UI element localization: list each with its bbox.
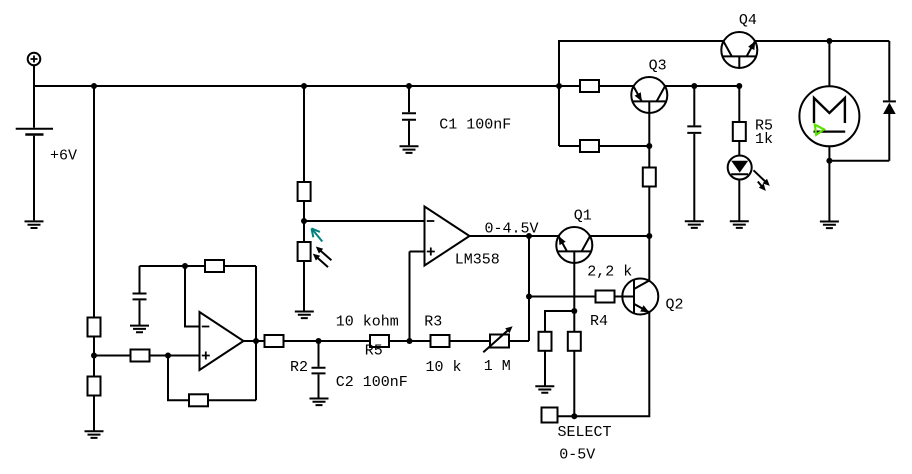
wire: U2 output chain xyxy=(244,340,530,342)
resistor (divider bottom) xyxy=(88,377,101,396)
wire: C2 to ground xyxy=(318,374,320,398)
wire: motor top lead xyxy=(828,41,830,86)
ground (C1) xyxy=(400,146,419,153)
capacitor (U2 feedback) xyxy=(133,294,147,300)
ground (battery) xyxy=(25,221,44,228)
transistor Q2 xyxy=(622,279,658,315)
resistor R5 10 kohm xyxy=(370,335,389,347)
wire: left resistor to ground xyxy=(544,351,546,386)
svg-text:1 M: 1 M xyxy=(484,358,511,375)
wire: Q1 base node to left resistor xyxy=(545,311,574,332)
wire: Q3 collector to Q4 base node xyxy=(665,85,739,87)
wire: battery minus to ground xyxy=(33,136,35,221)
wire: feedback vertical at x256 xyxy=(255,266,257,400)
resistor (Q3 base bias) xyxy=(580,140,599,152)
resistor R5 1k xyxy=(733,122,746,141)
junction node xyxy=(91,353,97,359)
ground (U2 feedback cap) xyxy=(130,326,149,333)
ground (bypass cap) xyxy=(685,221,704,228)
resistor (Q1 base to select) xyxy=(568,332,581,351)
wire: C1 top lead xyxy=(408,86,410,112)
junction node xyxy=(556,83,562,89)
junction node xyxy=(646,233,652,239)
LED xyxy=(728,156,770,191)
svg-text:1k: 1k xyxy=(755,131,773,148)
junction node xyxy=(253,338,259,344)
wire: upper sub-rail right of Q4 xyxy=(755,40,889,42)
wire: U2 minus input branch xyxy=(185,266,200,327)
wire: bypass cap top lead xyxy=(693,86,695,125)
wire: C1 bottom lead xyxy=(408,121,410,146)
junction node xyxy=(826,38,832,44)
wire: U1 inverting input line xyxy=(304,220,425,222)
junction node xyxy=(301,218,307,224)
wire: Q1 collector to x649 node xyxy=(591,235,650,237)
connector SELECT xyxy=(542,408,558,423)
svg-text:Q4: Q4 xyxy=(739,12,757,29)
junction node xyxy=(406,83,412,89)
resistor R3 xyxy=(431,335,450,347)
transistor Q3 xyxy=(631,77,667,114)
capacitor C1 xyxy=(402,113,416,120)
junction node xyxy=(526,294,532,300)
transistor Q1 xyxy=(556,227,592,264)
resistor (U2 top feedback) xyxy=(205,260,224,272)
junction node xyxy=(407,338,413,344)
terminal + xyxy=(28,53,41,66)
resistor (U2 bottom feedback) xyxy=(189,394,208,406)
wire: top feedback line xyxy=(140,265,257,267)
ground (left divider) xyxy=(85,431,104,438)
wire: LED to ground xyxy=(738,179,740,221)
wire: x559 vertical and upper sub-rail left xyxy=(559,41,723,146)
resistor (Q1 base to gnd) xyxy=(539,332,552,351)
svg-text:Q2: Q2 xyxy=(666,297,684,314)
junction node xyxy=(691,83,697,89)
op-amp U1 LM358 xyxy=(425,207,470,266)
junction node xyxy=(182,263,188,269)
wire: U1 plus input vertical xyxy=(409,252,411,342)
ground (LED) xyxy=(730,221,749,228)
resistor R4 2,2k xyxy=(596,291,615,303)
wire: motor bottom to ground xyxy=(828,146,830,221)
wire: bypass cap to ground xyxy=(693,134,695,221)
resistor (Q3 base series) xyxy=(643,168,656,187)
wire: Q3 base bias line xyxy=(559,145,649,147)
svg-text:LM358: LM358 xyxy=(455,252,500,269)
junction node xyxy=(736,83,742,89)
junction node xyxy=(571,308,577,314)
svg-text:10 kohm: 10 kohm xyxy=(336,313,399,330)
resistor R2 xyxy=(265,335,284,347)
junction node xyxy=(571,413,577,419)
wire: diode cathode up xyxy=(888,41,890,100)
junction node xyxy=(526,233,532,239)
wire: R4 line to Q2 base xyxy=(529,296,634,298)
junction node xyxy=(91,83,97,89)
wire: Q1 base vertical xyxy=(573,251,575,416)
svg-text:C1 100nF: C1 100nF xyxy=(439,117,511,134)
wire: +6V top rail xyxy=(34,85,559,87)
battery +6V xyxy=(16,129,53,135)
resistor (above LDR) xyxy=(298,182,311,201)
resistor (divider top) xyxy=(88,318,101,337)
ground (Q1 base divider) xyxy=(535,386,554,393)
wire: output node vertical xyxy=(528,236,530,341)
wire: C2 top lead xyxy=(318,341,320,367)
svg-text:SELECT: SELECT xyxy=(558,424,612,441)
wire: bottom feedback loop xyxy=(168,356,256,401)
svg-text:0-5V: 0-5V xyxy=(559,447,595,464)
junction node xyxy=(165,353,171,359)
resistor (U2 plus input) xyxy=(131,350,150,362)
svg-text:R3: R3 xyxy=(424,313,442,330)
svg-text:C2 100nF: C2 100nF xyxy=(336,374,408,391)
junction node xyxy=(826,158,832,164)
wire: terminal to battery top xyxy=(33,66,35,128)
capacitor (bypass at Q3 collector) xyxy=(687,126,701,132)
potentiometer 1M xyxy=(483,326,512,352)
wire: LDR branch vertical xyxy=(303,86,305,312)
capacitor C2 xyxy=(312,368,326,374)
svg-text:2,2 k: 2,2 k xyxy=(587,264,632,281)
wire: Q4 base node down to R5 xyxy=(738,86,740,156)
wire: x649 vertical Q3 base to Q2 collector xyxy=(648,101,650,280)
wire: feedback cap top lead xyxy=(139,266,141,293)
resistor (Q3 emitter bias) xyxy=(580,80,599,92)
svg-text:R2: R2 xyxy=(290,359,308,376)
wire: left divider vertical xyxy=(93,86,95,431)
svg-text:Q1: Q1 xyxy=(574,208,592,225)
cursor arrow (teal) xyxy=(312,228,323,241)
svg-text:+6V: +6V xyxy=(50,148,77,165)
wire: U2 plus input line xyxy=(94,355,200,357)
junction node xyxy=(301,83,307,89)
ground (motor) xyxy=(820,222,839,229)
wire: diode anode down xyxy=(888,114,890,161)
photoresistor LDR xyxy=(298,242,332,267)
svg-text:Q3: Q3 xyxy=(649,58,667,75)
wire: Q3 emitter line xyxy=(559,85,633,87)
wire: U1 non-inverting stub xyxy=(410,251,425,253)
diode (flyback) xyxy=(883,101,896,114)
motor M xyxy=(799,86,859,146)
ground (C2) xyxy=(310,399,329,406)
transistor Q4 xyxy=(721,32,757,69)
wire: motor bottom to diode xyxy=(829,160,889,162)
svg-text:R4: R4 xyxy=(590,313,608,330)
wire: Q2 emitter to select line xyxy=(558,313,650,417)
wire: feedback cap to ground xyxy=(139,300,141,325)
junction node xyxy=(646,143,652,149)
wire: U1 output to Q1 xyxy=(470,235,559,237)
junction node xyxy=(316,338,322,344)
svg-text:R5: R5 xyxy=(365,343,383,360)
op-amp U2 xyxy=(200,312,244,370)
ground (LDR) xyxy=(295,312,314,319)
svg-text:10 k: 10 k xyxy=(426,359,462,376)
